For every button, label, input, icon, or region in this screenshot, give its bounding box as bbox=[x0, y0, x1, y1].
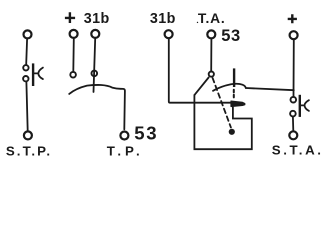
T.P. 31b terminal circle bbox=[91, 30, 99, 38]
speck before T.A. label bbox=[197, 22, 198, 23]
T.A. dashed lever alternate position bbox=[213, 78, 231, 127]
T.A. contact tick bbox=[233, 68, 235, 87]
T.A. terminal circle bbox=[207, 30, 215, 38]
svg-text:31b: 31b bbox=[150, 11, 176, 27]
S.T.A. lower contact circle bbox=[290, 111, 296, 117]
pushbutton switch S.T.P. top terminal circle bbox=[24, 30, 32, 38]
S.T.P. bottom terminal circle bbox=[24, 131, 32, 139]
wire bbox=[292, 117, 294, 131]
T.A. movable contact arrow bar bbox=[231, 101, 245, 106]
T.P. wiper arc to terminal 53 bbox=[69, 85, 125, 129]
svg-text:53: 53 bbox=[134, 123, 158, 144]
T.A. 31b terminal circle bbox=[165, 30, 173, 38]
wire bbox=[26, 82, 27, 131]
T.P. contact circle on wire bbox=[92, 71, 98, 77]
T.P. 53 terminal circle bbox=[120, 132, 128, 140]
T.A. wiper arc bbox=[213, 84, 246, 91]
plus terminal symbol of switch T.P. bbox=[65, 12, 75, 23]
S.T.P. upper contact circle bbox=[23, 65, 28, 70]
T.A. lever bbox=[195, 78, 209, 95]
S.T.P. push-button actuator fork bbox=[35, 68, 43, 80]
wire to S.T.A. bbox=[246, 88, 294, 90]
wire bbox=[293, 40, 295, 97]
S.T.A. top terminal circle bbox=[290, 31, 298, 39]
svg-text:T.A.: T.A. bbox=[198, 11, 226, 26]
T.A. dashed tick continuation bbox=[233, 90, 235, 100]
svg-text:S.T.P.: S.T.P. bbox=[6, 144, 52, 159]
T.A. switch body box bbox=[194, 95, 251, 149]
wire bbox=[210, 39, 212, 71]
wire from 31b terminal to movable contact bbox=[169, 39, 231, 103]
T.P. fixed contact circle bbox=[70, 72, 76, 78]
T.A. pivot contact circle bbox=[209, 72, 214, 77]
svg-text:T.P.: T.P. bbox=[107, 144, 144, 159]
plus terminal symbol of switch S.T.A. bbox=[288, 14, 297, 23]
svg-text:53: 53 bbox=[221, 27, 241, 45]
T.A. pivot dot bbox=[229, 129, 235, 135]
wire bbox=[25, 39, 28, 64]
S.T.A. movable contact bar bbox=[299, 95, 301, 117]
S.T.P. lower contact circle bbox=[23, 76, 28, 81]
T.P. plus terminal circle bbox=[70, 30, 78, 38]
S.T.A. bottom terminal circle bbox=[289, 131, 297, 139]
wire bbox=[94, 39, 96, 93]
S.T.P. movable contact bar bbox=[32, 63, 34, 86]
svg-text:31b: 31b bbox=[84, 11, 110, 27]
S.T.A. upper contact circle bbox=[291, 97, 297, 103]
S.T.A. push-button actuator fork bbox=[301, 100, 309, 111]
wire bbox=[72, 39, 75, 72]
svg-text:S.T.A.: S.T.A. bbox=[272, 143, 323, 158]
